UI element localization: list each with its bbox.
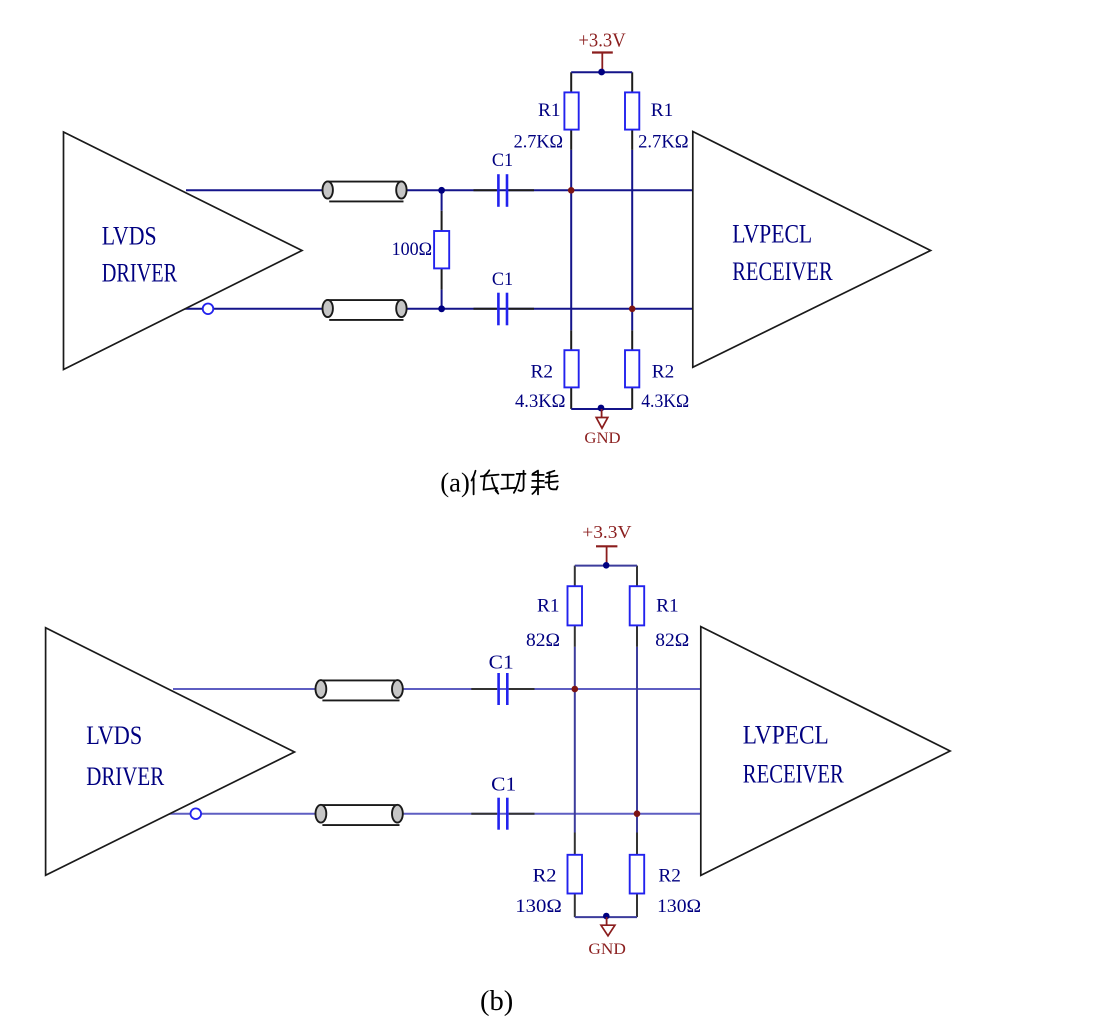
node junction dot bottom of RT (a)	[438, 305, 445, 312]
resistor R1 left body (a)	[564, 92, 578, 129]
resistor R1 left body (b)	[568, 586, 583, 625]
transmission line TL3 (b) top cylinder	[316, 680, 403, 700]
svg-text:+3.3V: +3.3V	[582, 522, 632, 542]
resistor R1 right body (a)	[625, 92, 639, 129]
node junction dot left bus to IN+ (a)	[568, 187, 575, 194]
wire net IN+ (b) top horizontal	[173, 688, 701, 690]
label +3.3V (b)	[582, 522, 632, 542]
value label 100ohm (a)	[392, 239, 433, 260]
label LVPECL (b)	[743, 720, 829, 750]
ground symbol (b)	[601, 917, 615, 936]
label R1 left (a)	[538, 100, 561, 121]
value 4.3Kohm right (a)	[641, 391, 689, 412]
svg-text:4.3KΩ: 4.3KΩ	[515, 391, 566, 412]
pin stubs of resistor R1 right (black)	[631, 72, 633, 150]
transmission line TL2 (a) bottom cylinder	[323, 300, 407, 320]
wire VCC rail (a)	[571, 71, 632, 73]
pin stubs of capacitor C1 top (b)	[471, 688, 534, 690]
label C1 top (a)	[492, 150, 513, 171]
node junction dot VCC rail (b)	[603, 562, 610, 569]
svg-text:(a): (a)	[440, 468, 470, 498]
pin stubs of resistor R2 right (b)	[636, 833, 638, 918]
capacitor C1 top plates (a)	[498, 174, 507, 207]
svg-text:R2: R2	[531, 362, 554, 383]
svg-text:82Ω: 82Ω	[526, 630, 560, 651]
svg-text:R1: R1	[538, 100, 561, 121]
wire GND rail (b)	[575, 916, 637, 918]
resistor R2 left body (a)	[564, 350, 578, 387]
wire net IN- (b) bottom horizontal	[169, 813, 701, 815]
svg-text:2.7KΩ: 2.7KΩ	[638, 131, 689, 152]
svg-text:GND: GND	[588, 941, 626, 958]
label R2 right (b)	[658, 866, 681, 887]
transmission line TL4 (b) bottom cylinder	[316, 805, 403, 825]
resistor R2 left body (b)	[568, 855, 583, 894]
svg-text:R1: R1	[651, 100, 674, 121]
node junction dot VCC rail (a)	[598, 69, 605, 76]
label GND (b)	[588, 941, 626, 958]
pin stubs of resistor 100 ohm (black)	[441, 211, 443, 290]
value 2.7Kohm right (a)	[638, 131, 689, 152]
ground symbol (a)	[596, 409, 608, 428]
pin stubs of resistor R1 left (black)	[570, 72, 572, 150]
value 130ohm left (b)	[515, 896, 562, 917]
label R1 right (a)	[651, 100, 674, 121]
wire net IN- (a) bottom horizontal	[184, 308, 693, 310]
svg-text:LVDS: LVDS	[86, 721, 142, 750]
svg-text:C1: C1	[492, 150, 513, 171]
value 82ohm left (b)	[526, 630, 560, 651]
pin stubs of resistor R1 left (b)	[574, 566, 576, 647]
value 4.3Kohm left (a)	[515, 391, 566, 412]
inverting output bubble (a)	[203, 304, 214, 315]
svg-text:LVPECL: LVPECL	[732, 220, 812, 249]
label RECEIVER (b)	[743, 758, 844, 788]
op-amp U4 LVPECL RECEIVER triangle (b)	[701, 627, 950, 876]
label R2 left (a)	[531, 362, 554, 383]
wire left bus vertical (b)	[574, 647, 576, 833]
svg-text:C1: C1	[491, 775, 516, 796]
wire right bus vertical (a)	[631, 150, 633, 331]
resistor R2 right body (b)	[630, 855, 645, 894]
label DRIVER (b)	[86, 762, 165, 791]
pin stubs of capacitor C1 bottom (b)	[471, 813, 534, 815]
capacitor C1 bottom plates (b)	[499, 798, 508, 830]
label DRIVER (a)	[102, 258, 178, 287]
resistor R2 right body (a)	[625, 350, 639, 387]
node junction dot right bus to IN- (b)	[634, 810, 641, 817]
wire right bus vertical (b)	[636, 647, 638, 833]
svg-text:130Ω: 130Ω	[515, 896, 562, 917]
svg-text:130Ω: 130Ω	[657, 896, 701, 917]
label R1 left (b)	[537, 595, 560, 616]
caption text (a)	[440, 468, 470, 498]
label C1 bottom (b)	[491, 775, 516, 796]
op-amp U3 LVDS DRIVER triangle (b)	[46, 628, 295, 876]
transmission line TL1 (a) top cylinder	[323, 181, 407, 201]
svg-text:LVDS: LVDS	[102, 221, 157, 250]
caption hanzi GONG (work)	[501, 471, 525, 493]
svg-text:R1: R1	[656, 595, 679, 616]
pin stubs of resistor R2 left (black)	[570, 330, 572, 409]
svg-text:LVPECL: LVPECL	[743, 720, 829, 750]
node junction dot GND rail (b)	[603, 913, 610, 920]
label GND (a)	[584, 430, 620, 447]
pin stubs of capacitor C1 top (black)	[474, 189, 535, 191]
label LVDS (b)	[86, 721, 142, 750]
capacitor C1 bottom plates (a)	[498, 293, 507, 326]
label +3.3V (a)	[578, 30, 626, 52]
wire GND rail (a)	[571, 408, 632, 410]
op-amp U2 LVPECL RECEIVER triangle (a)	[693, 132, 931, 368]
wire left bus vertical (a)	[570, 150, 572, 331]
wire VCC rail (b)	[575, 565, 637, 567]
caption hanzi DI (low)	[472, 470, 499, 494]
node junction dot left bus to IN+ (b)	[572, 686, 579, 693]
label LVDS (a)	[102, 221, 157, 250]
label C1 bottom (a)	[492, 269, 513, 290]
svg-text:+3.3V: +3.3V	[578, 30, 626, 52]
label LVPECL (a)	[732, 220, 812, 249]
op-amp U1 LVDS DRIVER triangle (a)	[64, 132, 303, 370]
svg-text:(b): (b)	[480, 986, 513, 1017]
wire net IN+ (a) top horizontal	[186, 189, 693, 191]
resistor R1 right body (b)	[630, 586, 645, 625]
svg-text:R1: R1	[537, 595, 560, 616]
capacitor C1 top plates (b)	[499, 673, 508, 705]
label RECEIVER (a)	[732, 257, 833, 286]
svg-text:100Ω: 100Ω	[392, 239, 433, 260]
pin stubs of resistor R2 right (black)	[631, 330, 633, 409]
svg-text:C1: C1	[492, 269, 513, 290]
svg-text:C1: C1	[489, 652, 514, 673]
svg-text:82Ω: 82Ω	[655, 630, 689, 651]
value 130ohm right (b)	[657, 896, 701, 917]
node junction dot GND rail (a)	[598, 405, 605, 412]
svg-text:4.3KΩ: 4.3KΩ	[641, 391, 689, 412]
node junction dot top of RT (a)	[438, 187, 445, 194]
power symbol +3.3V bar (b)	[596, 546, 617, 565]
label R2 left (b)	[533, 866, 557, 887]
svg-text:R2: R2	[652, 362, 675, 383]
pin stubs of capacitor C1 bottom (black)	[474, 308, 535, 310]
svg-text:R2: R2	[533, 866, 557, 887]
label R1 right (b)	[656, 595, 679, 616]
label C1 top (b)	[489, 652, 514, 673]
pin stubs of resistor R1 right (b)	[636, 566, 638, 647]
resistor RT 100 ohm body (a)	[434, 231, 449, 268]
inverting output bubble (b)	[191, 808, 202, 819]
svg-text:RECEIVER: RECEIVER	[743, 758, 844, 788]
svg-text:2.7KΩ: 2.7KΩ	[514, 131, 564, 152]
node junction dot right bus to IN- (a)	[629, 306, 636, 313]
caption text (b)	[480, 986, 513, 1017]
power symbol +3.3V bar (a)	[592, 53, 613, 72]
value 82ohm right (b)	[655, 630, 689, 651]
pin stubs of resistor R2 left (b)	[574, 833, 576, 918]
wire vertical to resistor 100 ohm (a)	[441, 190, 443, 308]
svg-text:GND: GND	[584, 430, 620, 447]
caption hanzi HAO (consume)	[532, 471, 558, 495]
svg-text:RECEIVER: RECEIVER	[732, 257, 833, 286]
svg-text:DRIVER: DRIVER	[86, 762, 165, 791]
label R2 right (a)	[652, 362, 675, 383]
value 2.7Kohm left (a)	[514, 131, 564, 152]
svg-text:R2: R2	[658, 866, 681, 887]
svg-text:DRIVER: DRIVER	[102, 258, 178, 287]
